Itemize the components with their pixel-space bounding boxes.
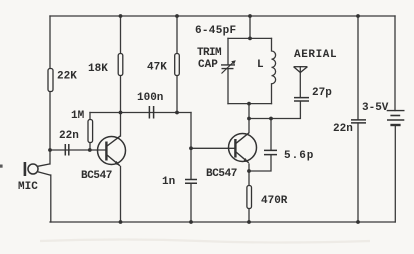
wire bottom ground rail xyxy=(50,221,395,223)
capacitor C 5.6p plates xyxy=(264,150,277,154)
svg-text:22K: 22K xyxy=(57,71,77,83)
node ground / 1n xyxy=(189,220,193,224)
svg-text:27p: 27p xyxy=(312,87,332,99)
node 5.6p / line B xyxy=(269,117,273,121)
svg-text:CAP: CAP xyxy=(198,59,218,71)
svg-text:1n: 1n xyxy=(162,176,175,188)
resistor R 22K body xyxy=(48,69,53,92)
svg-text:5.6p: 5.6p xyxy=(284,150,314,162)
svg-text:BC547: BC547 xyxy=(81,170,112,182)
node ground / Q1 emitter xyxy=(119,220,123,224)
svg-text:BC547: BC547 xyxy=(206,168,237,180)
svg-text:1M: 1M xyxy=(71,110,85,122)
svg-text:AERIAL: AERIAL xyxy=(294,49,337,61)
wire Q2 emitter down xyxy=(248,164,250,186)
transistor Q1 BC547 xyxy=(98,136,126,166)
wire 1n to ground xyxy=(190,183,192,222)
wire 1M feedback top lead xyxy=(89,113,91,120)
node collector / line B xyxy=(247,117,251,121)
resistor R 1M body xyxy=(88,120,93,143)
resistor R 470R body xyxy=(247,186,252,209)
capacitor C 22n (mic coupling) plates xyxy=(65,144,69,156)
wire Q2 base drop xyxy=(190,113,192,180)
wire right frame top (battery +) xyxy=(394,16,396,111)
node top rail / 47K xyxy=(175,14,179,18)
node 47K / 100n xyxy=(175,111,179,115)
wire Q1 emitter to ground xyxy=(120,167,122,223)
wire Q2 collector to tank xyxy=(248,104,250,133)
wire 27p top to aerial xyxy=(299,67,301,98)
svg-text:3-5V: 3-5V xyxy=(362,102,389,114)
scan speck left edge xyxy=(0,165,3,168)
svg-text:MIC: MIC xyxy=(18,181,38,193)
resistor R 47K body xyxy=(175,54,180,76)
wire 5.6p top to collector net xyxy=(270,119,272,151)
wire tank bottom xyxy=(228,103,272,105)
wire coupling line (100n) collector to Q2 base feed xyxy=(90,112,191,114)
resistor R 18K body xyxy=(118,54,123,76)
wire collector net to 27p (line B) xyxy=(249,101,300,118)
trimmer capacitor 6-45pF xyxy=(221,60,236,73)
capacitor C 22n (supply decoupling) plates xyxy=(351,120,366,123)
wire tank feed from supply xyxy=(249,16,251,38)
microphone MIC xyxy=(25,162,51,176)
node ground / decoupling xyxy=(356,220,360,224)
node Q1 collector / 100n xyxy=(119,111,123,115)
scan smudge below ground rail xyxy=(40,240,370,243)
inductor L xyxy=(272,38,276,103)
wire right frame bottom (battery -) xyxy=(394,125,396,222)
wire tank left (trimmer) upper xyxy=(227,38,229,64)
wire 1M bottom lead xyxy=(89,143,91,151)
svg-text:47K: 47K xyxy=(147,62,167,74)
wire emitter to 5.6p xyxy=(249,155,271,171)
battery 3-5V xyxy=(387,111,405,125)
svg-text:100n: 100n xyxy=(137,92,163,104)
svg-text:22n: 22n xyxy=(333,123,353,135)
aerial antenna symbol xyxy=(294,67,308,73)
node tank bottom / collector xyxy=(247,102,251,106)
node Q2 base / 1n xyxy=(189,146,193,150)
transistor Q2 BC547 xyxy=(229,133,257,163)
node ground / 470R xyxy=(247,220,251,224)
wire 470R to ground xyxy=(248,209,250,223)
wire left frame (22K branch) xyxy=(49,16,51,150)
capacitor C 100n (interstage coupling) plates xyxy=(149,106,153,119)
node tank feed / tank top xyxy=(248,37,252,41)
node top rail / tank feed xyxy=(248,14,252,18)
wire 22n decoupling branch xyxy=(357,16,359,222)
wire tank left (trimmer) lower xyxy=(227,69,229,104)
svg-text:L: L xyxy=(257,59,264,71)
svg-text:22n: 22n xyxy=(59,130,79,142)
node top rail / decoupling xyxy=(356,14,360,18)
svg-text:6-45pF: 6-45pF xyxy=(195,25,236,37)
node 1M / base wire xyxy=(88,148,92,152)
wire Q1 base xyxy=(50,149,105,151)
wire Q2 base xyxy=(191,147,234,149)
svg-text:TRIM: TRIM xyxy=(197,47,222,59)
node top rail / 18K xyxy=(119,14,123,18)
wire mic to ground xyxy=(50,175,52,222)
svg-text:470R: 470R xyxy=(261,195,288,207)
capacitor C 1n plates xyxy=(185,180,197,184)
node mic / 22K / base wire xyxy=(48,148,52,152)
svg-text:18K: 18K xyxy=(88,63,108,75)
wire 47K branch xyxy=(176,16,178,113)
capacitor C 27p plates xyxy=(294,98,309,101)
wire tank top xyxy=(228,37,272,39)
wire 18K / Q1 collector branch xyxy=(120,16,122,136)
node Q2 emitter / 470R / 5.6p xyxy=(247,169,251,173)
wire top supply rail xyxy=(50,15,395,17)
wire mic node segment xyxy=(49,150,51,164)
